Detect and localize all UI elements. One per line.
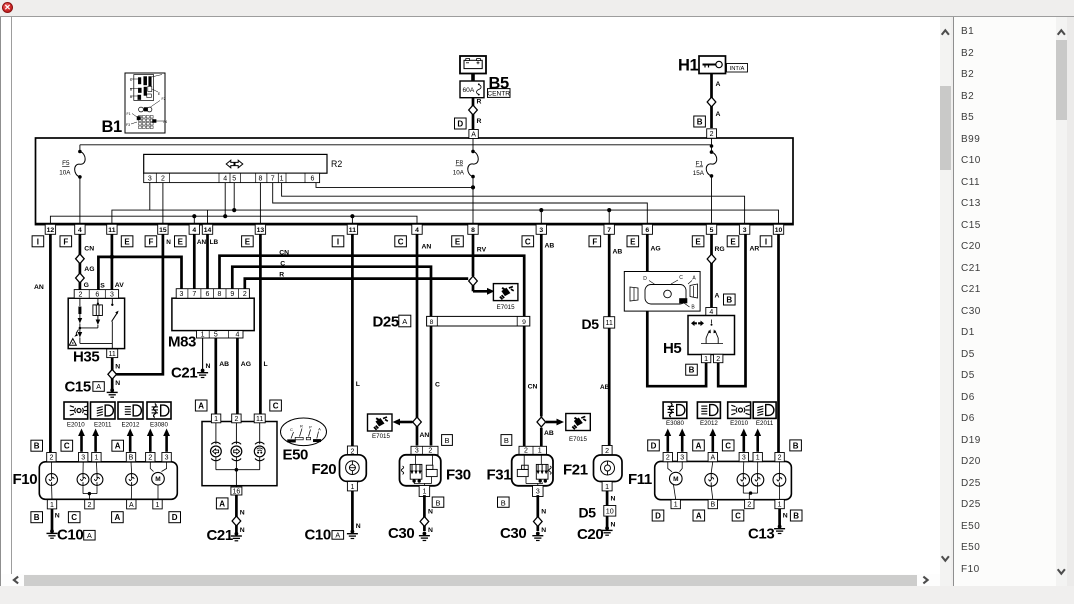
svg-text:8: 8 [218,291,222,298]
svg-text:AB: AB [544,430,554,437]
svg-text:M: M [155,476,160,483]
indicator E3080 rear fog [147,402,171,419]
ground C13 [778,525,782,529]
ignition switch H1 [699,56,726,74]
svg-text:E2011: E2011 [94,422,112,429]
wire F21 pin 1 to D5 pin 10 and ground C20 [606,491,609,528]
svg-text:B: B [793,441,799,450]
connector codes around F10 [31,440,43,451]
wire AB terminal 3 to F31 pin 1 [540,234,543,416]
splice below H35 [108,369,117,379]
svg-text:N: N [240,527,245,534]
wire L terminal 11 to F20 pin 2 [351,234,354,446]
svg-text:A: A [716,111,721,118]
R2 pin strip 3 2 4 5 8 7 1 6 [144,173,320,182]
svg-text:F2: F2 [162,97,166,101]
svg-text:8: 8 [430,319,434,326]
wire R2 pin 5 to net A [233,183,235,211]
svg-text:C10: C10 [57,527,83,544]
B1 fuse grid [139,116,142,119]
connector codes B at F30 [442,435,453,446]
junction box terminal 13 [255,224,265,234]
svg-text:H5: H5 [663,340,681,357]
wire R2 pin 8 to terminal 13 [259,183,261,224]
svg-text:AV: AV [115,282,124,289]
svg-text:F21: F21 [563,462,588,479]
svg-text:N: N [428,509,433,516]
svg-text:A: A [716,81,721,88]
svg-text:2: 2 [778,455,782,462]
wire AB M83 pin 5 to E50 pin 1 [214,338,217,415]
node terminal 3 on net A [539,208,543,212]
splice on B5 wire [469,105,478,115]
witness E7015 for AN wire [399,421,413,424]
svg-text:3: 3 [742,455,746,462]
ground C20 [605,526,609,530]
E50 pin 16 [231,487,242,495]
wire AN terminal 4 to F30 pin 3 [416,234,419,445]
connector code F [589,236,601,247]
fuse 60A of B5 [460,81,484,98]
connector code C [270,400,282,411]
ground C10 [50,529,54,533]
wire F20 pin 1 to ground C10b [351,491,354,532]
wire AN terminal 4 to M83 pin 7 [193,234,196,288]
svg-text:3: 3 [81,455,85,462]
svg-text:R: R [279,272,284,279]
label INT/A [727,64,748,73]
wire R2 pin 1 to terminal 3 [282,183,745,224]
F10 internal lamps [50,462,52,473]
svg-text:N: N [206,363,211,370]
connector code E [692,236,704,247]
svg-text:B: B [444,436,449,445]
svg-text:C: C [735,512,741,521]
svg-text:F11: F11 [628,471,652,488]
internal supply bus wire [80,144,712,146]
svg-text:F4: F4 [163,120,167,124]
light switch F10 [39,462,177,500]
node terminal 4a on net B [192,214,196,218]
splice on AN wire [413,417,422,427]
wire AB splice to F31 pin 1 [540,428,543,448]
junction box terminal 14 [202,224,212,234]
svg-text:C: C [280,261,285,268]
svg-text:E7015: E7015 [569,436,587,443]
wire C M83 pin 9 to D25 pin 8 [232,267,431,317]
svg-text:1: 1 [422,489,426,496]
svg-text:N: N [611,522,616,529]
svg-text:B: B [726,296,732,305]
svg-text:I: I [765,237,767,246]
svg-text:E: E [730,237,736,246]
svg-text:N: N [115,380,120,387]
wire AG M83 pin 4 to E50 pin 2 [236,338,239,415]
svg-text:1: 1 [280,176,284,183]
connector code I [332,236,344,247]
svg-text:AB: AB [545,243,555,250]
svg-text:C: C [71,513,77,522]
svg-text:A: A [198,402,204,411]
svg-text:CENTR: CENTR [487,90,510,97]
junction box terminal 5 [706,224,716,234]
connector code B below H5 [686,364,698,375]
svg-text:F10: F10 [13,471,38,488]
svg-text:1: 1 [350,484,354,491]
svg-text:S: S [100,283,105,290]
svg-text:I: I [337,237,339,246]
relay R2 [144,154,327,173]
wire LB terminal 14 to M83 pin 6 [206,234,209,288]
svg-text:A: A [402,317,407,326]
splice on AB wire [537,417,546,427]
svg-text:11: 11 [109,351,116,358]
svg-text:LB: LB [210,239,219,246]
svg-text:AN: AN [420,432,430,439]
svg-text:15: 15 [159,227,167,234]
arrow F10 pin 3 to E2010 [80,435,83,452]
ground C21b [235,532,239,536]
svg-text:N: N [541,527,546,534]
wire H1 to junction box [710,74,713,129]
wire E50 pin 16 to ground C21 [235,495,238,534]
svg-text:F: F [63,237,68,246]
connector code A [195,400,207,411]
node E50 internal [235,468,239,472]
wire F5 to terminal 4 [79,177,81,224]
svg-text:N: N [783,513,788,520]
svg-text:2: 2 [87,502,91,509]
svg-text:E7015: E7015 [372,433,390,440]
svg-text:E2012: E2012 [122,422,140,429]
node R2-4 on net B [223,214,227,218]
svg-text:F1: F1 [126,112,130,116]
svg-text:F: F [148,237,153,246]
svg-text:N: N [55,513,60,520]
svg-text:N: N [541,509,546,516]
svg-text:A: A [129,502,134,509]
wire F1 to terminal 5 [711,176,713,224]
junction box terminal 15 [158,224,168,234]
svg-text:N: N [356,523,361,530]
svg-text:CN: CN [84,245,94,252]
svg-text:6: 6 [645,227,649,234]
witness E7015 for AB wire [546,421,558,424]
hazard switch H35 [68,298,124,348]
svg-text:D5: D5 [582,316,600,332]
junction box terminal 3 [536,224,546,234]
arrow F11 pin 1 to E2011b [756,435,759,452]
svg-text:2: 2 [524,448,528,455]
svg-text:7: 7 [192,291,196,298]
svg-text:4: 4 [223,176,227,183]
splice on CN wire [76,254,85,264]
svg-text:11: 11 [256,416,263,423]
svg-text:9: 9 [230,291,234,298]
ground C30 [423,532,427,536]
junction box terminal 7 [604,224,614,234]
junction box terminal 4 [412,224,422,234]
svg-text:N: N [240,510,245,517]
arrow F10 pin 3b to E3080 [165,435,168,452]
svg-text:N: N [115,364,120,371]
junction box terminal 12 [45,224,55,234]
indicator E2011b low beam [753,402,776,418]
junction box terminal 11 [347,224,357,234]
wire C D25 pin 8 to F30 pin 2 [430,326,433,446]
svg-text:C21: C21 [171,365,197,382]
svg-text:B: B [710,502,715,509]
svg-text:F8: F8 [456,160,464,167]
svg-text:C: C [273,402,279,411]
svg-text:D: D [172,513,178,522]
svg-text:E: E [124,237,130,246]
indicator E2010b front fog [728,402,751,418]
svg-text:B1: B1 [102,118,123,136]
svg-text:3: 3 [539,227,543,234]
svg-text:B: B [435,498,440,507]
arrow F10 pin B to E2012 [129,435,132,452]
svg-text:AN: AN [34,284,44,291]
svg-text:L: L [264,361,268,368]
svg-text:15A: 15A [693,170,705,177]
hazard warning switch E50 [202,422,277,486]
branch wire to H35 pin 6 and M83 pin 3 [98,257,181,290]
svg-text:4: 4 [415,227,419,234]
svg-text:F30: F30 [446,467,471,484]
svg-text:1: 1 [214,416,218,423]
svg-text:B: B [501,498,506,507]
splice RV/R [469,276,478,286]
F11 internal symbols [668,461,672,471]
connector code E [627,236,639,247]
svg-text:3: 3 [536,489,540,496]
label CENTR [488,89,511,98]
svg-text:INT/A: INT/A [730,66,745,72]
svg-text:D: D [655,512,661,521]
svg-text:13: 13 [257,227,265,234]
svg-text:4: 4 [192,227,196,234]
svg-text:A: A [87,531,92,540]
E50 pictogram ellipse [281,418,327,446]
svg-text:C30: C30 [388,525,414,542]
connector code B [694,116,706,127]
svg-text:12: 12 [47,227,55,234]
svg-text:M83: M83 [168,334,196,351]
wire CN M83 pin 8 to D25 pin 9 [220,256,525,317]
svg-text:6: 6 [206,291,210,298]
wire B5 to junction box [471,74,475,82]
connector code F [60,236,72,247]
wire terminal 10 to F11 pin 2 [777,234,780,453]
svg-text:H1: H1 [678,57,699,75]
svg-text:1: 1 [94,455,98,462]
svg-text:1: 1 [674,502,678,509]
svg-text:F3: F3 [126,123,130,127]
svg-text:2: 2 [747,502,751,509]
svg-text:C: C [725,441,731,450]
svg-text:C20: C20 [577,526,603,543]
indicator E2012 high beam [118,402,143,419]
splice [232,516,241,526]
svg-text:B: B [793,512,799,521]
arrow F11 pin 3 to E3080b [681,435,684,452]
wire R M83 pin 2 to RV splice [245,279,468,289]
svg-text:14: 14 [204,227,212,234]
wire RG terminal 5 to H5 pin 4 [710,234,713,307]
battery B5 [460,56,486,74]
wire CN D25 pin 9 to F31 pin 2 [523,326,526,447]
wire N terminal 15 to H35 pin 11 splice [112,234,163,374]
svg-text:D: D [643,276,647,282]
connector codes B at F31 [501,435,512,446]
connector code E [175,236,187,247]
svg-text:F1: F1 [696,161,704,168]
svg-text:5: 5 [232,176,236,183]
arrow F11 pin A to E2012b [711,435,714,452]
junction box terminal 6 [642,224,652,234]
connector code I [32,236,44,247]
svg-text:2: 2 [605,448,609,455]
svg-text:C: C [679,275,683,281]
svg-text:R: R [477,118,482,125]
svg-text:C: C [398,237,404,246]
svg-text:10A: 10A [59,170,71,177]
svg-text:B: B [697,118,703,127]
indicator E2011 low beam [91,402,116,419]
svg-text:E: E [455,237,461,246]
terminal A of junction box top [469,130,478,139]
svg-text:2: 2 [79,292,83,299]
svg-text:2: 2 [161,176,165,183]
wire F30 pin 1 to ground C30 [423,495,426,531]
svg-text:2: 2 [428,448,432,455]
svg-text:F20: F20 [312,461,337,478]
svg-text:1: 1 [704,356,708,363]
svg-text:3: 3 [110,292,114,299]
svg-text:2: 2 [49,455,53,462]
wire R2 pin 7 to terminal 6 [273,183,648,224]
svg-text:D25: D25 [373,314,399,331]
connector code E [727,236,739,247]
junction box B99 outline [36,138,794,225]
ground C15 [110,388,114,392]
fuse box B1 [125,73,165,133]
svg-text:R: R [477,99,482,106]
wire RV terminal 8 to splice [472,234,475,276]
svg-text:A: A [219,499,225,508]
svg-text:1: 1 [778,502,782,509]
svg-text:6: 6 [95,292,99,299]
svg-text:16: 16 [233,489,241,496]
svg-text:4: 4 [78,227,82,234]
svg-text:C: C [435,382,440,389]
ground C30b [536,532,540,536]
svg-text:A: A [115,513,121,522]
light switch H5 [706,308,717,316]
wire R2 pin 3 to net A [149,183,151,211]
svg-text:E3080: E3080 [150,422,168,429]
wire AB terminal 7 to F21 via D5 [608,234,611,445]
indicator E3080b rear fog [663,402,687,418]
arrow F11 pin 2 to E3080b [666,435,669,452]
svg-text:2: 2 [666,455,670,462]
splice [534,517,543,527]
svg-text:3: 3 [743,227,747,234]
connector code A [216,498,228,509]
svg-text:E2012: E2012 [700,420,718,427]
svg-text:A: A [471,132,476,139]
svg-text:G: G [84,282,89,289]
indicator E2010 front fog [64,402,88,419]
svg-text:C21: C21 [207,527,233,544]
wire AR terminal 3 to H5 pin 2 [718,234,745,386]
node R2-5 on net A [232,208,236,212]
svg-text:10: 10 [606,506,614,515]
svg-text:AB: AB [600,384,610,391]
svg-text:E: E [630,237,636,246]
svg-text:AR: AR [750,246,760,253]
svg-text:AN: AN [422,244,432,251]
svg-text:9: 9 [522,319,526,326]
svg-text:1: 1 [605,484,609,491]
connector code E [242,236,254,247]
net B wire: terminal 12 / terminal 4 / R2-4 / terminal 11 / terminal 4 [50,216,417,224]
svg-text:M: M [673,476,678,483]
junction box terminal 10 [773,224,783,234]
svg-text:L: L [356,381,360,388]
svg-text:2: 2 [243,291,247,298]
connector code D [455,118,467,129]
svg-text:E7015: E7015 [497,304,515,311]
svg-text:E2010: E2010 [730,420,748,427]
svg-text:4: 4 [235,332,239,339]
svg-text:A: A [115,442,121,451]
svg-text:A: A [715,293,720,300]
svg-text:3: 3 [165,455,169,462]
svg-text:RV: RV [477,247,487,254]
svg-text:R: R [300,424,303,429]
svg-text:AG: AG [651,246,661,253]
svg-text:C: C [64,442,70,451]
ground C21 [201,369,205,373]
wire AV terminal 11 to H35 pin 3 [111,234,114,290]
svg-text:C: C [290,427,293,432]
svg-text:2: 2 [710,131,714,138]
svg-text:N: N [428,527,433,534]
relay F30 [411,446,438,455]
wire F11 pin 1 to ground C13 [778,509,781,527]
connector code B near H5 [724,294,736,305]
svg-text:A: A [710,455,715,462]
svg-text:E3080: E3080 [666,420,684,427]
interior lamp F20 [347,446,357,455]
svg-text:3: 3 [415,448,419,455]
svg-text:E50: E50 [283,447,309,464]
svg-text:10: 10 [775,227,783,234]
svg-text:CN: CN [528,384,538,391]
svg-text:E: E [695,237,701,246]
wire AG terminal 6 to H5 pin 1 [647,234,706,386]
witness E7015 for RV wire [472,286,475,292]
svg-text:F5: F5 [62,160,70,167]
connector code E [121,236,133,247]
svg-text:3: 3 [180,291,184,298]
svg-text:11: 11 [605,318,612,327]
wire M83 pin 1 to ground C21 [202,338,204,371]
fuse F1 [711,138,713,146]
svg-text:A: A [335,530,340,539]
